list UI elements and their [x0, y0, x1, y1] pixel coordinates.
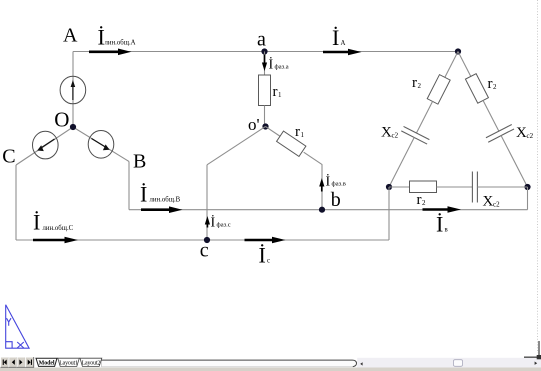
svg-text:2: 2: [422, 199, 426, 207]
svg-text:в: в: [445, 227, 448, 234]
svg-text:фаз.а: фаз.а: [275, 64, 289, 71]
node c: [204, 237, 210, 243]
bottom tab bar background: [0, 356, 541, 371]
svg-text:İ: İ: [259, 243, 266, 268]
bottom gray strip: [0, 368, 541, 371]
tab strip baseline bar: [102, 360, 357, 367]
wire C vertical: [15, 165, 17, 240]
current arrow I lin.obsh.A: [89, 49, 132, 56]
wire branch O to B corner: [73, 127, 129, 162]
delta bottom-right node: [524, 184, 530, 190]
node b: [319, 207, 325, 213]
phase arrow I faz.a (down): [262, 55, 267, 72]
svg-text:b: b: [331, 189, 341, 211]
branch o' to b with resistor r1 diagonal: [262, 121, 326, 169]
delta bottom-left node: [386, 184, 392, 190]
svg-text:1: 1: [278, 91, 282, 99]
wire cap to BR vertex: [477, 186, 527, 188]
svg-text:X: X: [381, 125, 392, 141]
branch o' to c diagonal: [207, 127, 266, 165]
phase arrow I faz.b (up): [319, 178, 324, 192]
svg-text:фаз.в: фаз.в: [332, 181, 346, 188]
resistor r2 bottom: [410, 181, 437, 193]
svg-text:лин.общ.А: лин.общ.А: [105, 40, 136, 47]
svg-text:c: c: [200, 240, 209, 262]
wire r2 to cap: [437, 186, 473, 188]
wire phase A top row: [73, 51, 458, 53]
svg-text:r: r: [417, 192, 422, 208]
svg-text:İ: İ: [332, 25, 339, 50]
svg-text:Layout2: Layout2: [82, 361, 101, 367]
wire b row: [129, 209, 528, 211]
svg-text:X: X: [483, 194, 494, 210]
svg-text:İ: İ: [436, 212, 443, 237]
Model tab (active): [36, 358, 57, 366]
svg-text:c2: c2: [493, 201, 500, 209]
nav buttons: [1, 357, 34, 367]
right edge dotted border: [537, 0, 539, 353]
svg-text:O: O: [54, 107, 69, 131]
current arrow I_A: [323, 49, 362, 56]
source circle EC: [33, 131, 59, 159]
svg-text:İ: İ: [140, 182, 147, 207]
wire branch O to C corner: [16, 127, 73, 165]
current arrow I lin.obsh.B: [141, 206, 183, 213]
current arrow I_c: [245, 237, 286, 244]
current arrow I_v: [423, 206, 462, 213]
svg-text:Model: Model: [39, 361, 55, 367]
svg-text:лин.общ.С: лин.общ.С: [43, 225, 74, 232]
svg-text:лин.общ.В: лин.общ.В: [150, 197, 181, 204]
svg-text:r: r: [488, 76, 493, 92]
Layout1 tab: [58, 358, 80, 366]
svg-text:a: a: [257, 29, 266, 51]
capacitor Xc2 bottom: [471, 172, 473, 203]
phase arrow I faz.c (up): [205, 216, 210, 228]
wire corner to b: [321, 164, 323, 209]
wire a to r1: [264, 52, 266, 76]
svg-text:İ: İ: [33, 210, 40, 235]
node O: [70, 124, 76, 130]
wire c vertical: [206, 165, 208, 240]
node o': [262, 123, 268, 129]
svg-text:İ: İ: [269, 57, 274, 73]
svg-text:r: r: [273, 84, 278, 100]
source circle EA: [60, 76, 86, 104]
svg-text:X: X: [516, 125, 527, 141]
wire B vertical: [128, 162, 130, 210]
delta top vertex node: [455, 48, 461, 54]
svg-text:İ: İ: [211, 215, 216, 231]
resistor r1 vertical: [259, 75, 271, 106]
delta left branch with r2 and Xc2: [376, 45, 471, 194]
current arrow I lin.obsh.C: [33, 237, 78, 244]
svg-text:B: B: [133, 150, 146, 172]
delta right branch with r2 and Xc2: [445, 45, 540, 194]
svg-text:1: 1: [301, 131, 305, 139]
wire r1 to o': [264, 106, 266, 127]
svg-text:İ: İ: [326, 174, 331, 190]
svg-text:c2: c2: [527, 132, 534, 140]
wire c row: [16, 239, 389, 241]
wire BR vertex down to b row: [527, 187, 529, 210]
UCS icon: [6, 305, 29, 348]
svg-text:2: 2: [493, 83, 497, 91]
crosshair cursor: [524, 341, 541, 359]
source circle EB: [88, 131, 114, 159]
svg-text:C: C: [2, 145, 15, 167]
Layout2 tab: [80, 358, 102, 366]
svg-text:r: r: [412, 75, 417, 91]
delta bottom branch wires: [389, 186, 410, 188]
svg-text:А: А: [341, 40, 346, 47]
node a: [261, 48, 267, 54]
svg-text:2: 2: [418, 82, 422, 90]
svg-text:Layout1: Layout1: [59, 361, 78, 367]
svg-text:r: r: [295, 124, 300, 140]
svg-text:c2: c2: [392, 132, 399, 140]
svg-text:A: A: [63, 24, 78, 46]
horizontal scrollbar: [357, 358, 541, 368]
svg-text:с: с: [267, 258, 270, 265]
wire BL vertex down to c row: [388, 187, 390, 240]
wire A vertical from corner to O: [72, 52, 74, 128]
svg-text:фаз.с: фаз.с: [217, 222, 231, 229]
